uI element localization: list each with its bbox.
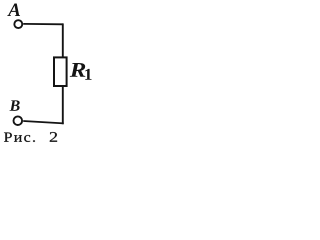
label R1 subscript 1 — [85, 69, 91, 80]
wire: bottom-right corner to terminal B — [23, 121, 64, 123]
terminal A (open circle) — [14, 20, 22, 28]
label R1 letter R — [70, 63, 86, 77]
node label A — [7, 3, 20, 16]
wire: terminal A to top-right corner — [23, 23, 63, 25]
caption Ris. — [4, 133, 35, 142]
wire: resistor bottom to bottom-right corner — [62, 86, 64, 124]
node label B — [9, 100, 19, 111]
terminal B (open circle) — [13, 116, 22, 125]
caption number 2 — [50, 132, 57, 142]
resistor R1 (box) — [54, 57, 67, 86]
wire: vertical down to resistor top — [62, 23, 64, 57]
